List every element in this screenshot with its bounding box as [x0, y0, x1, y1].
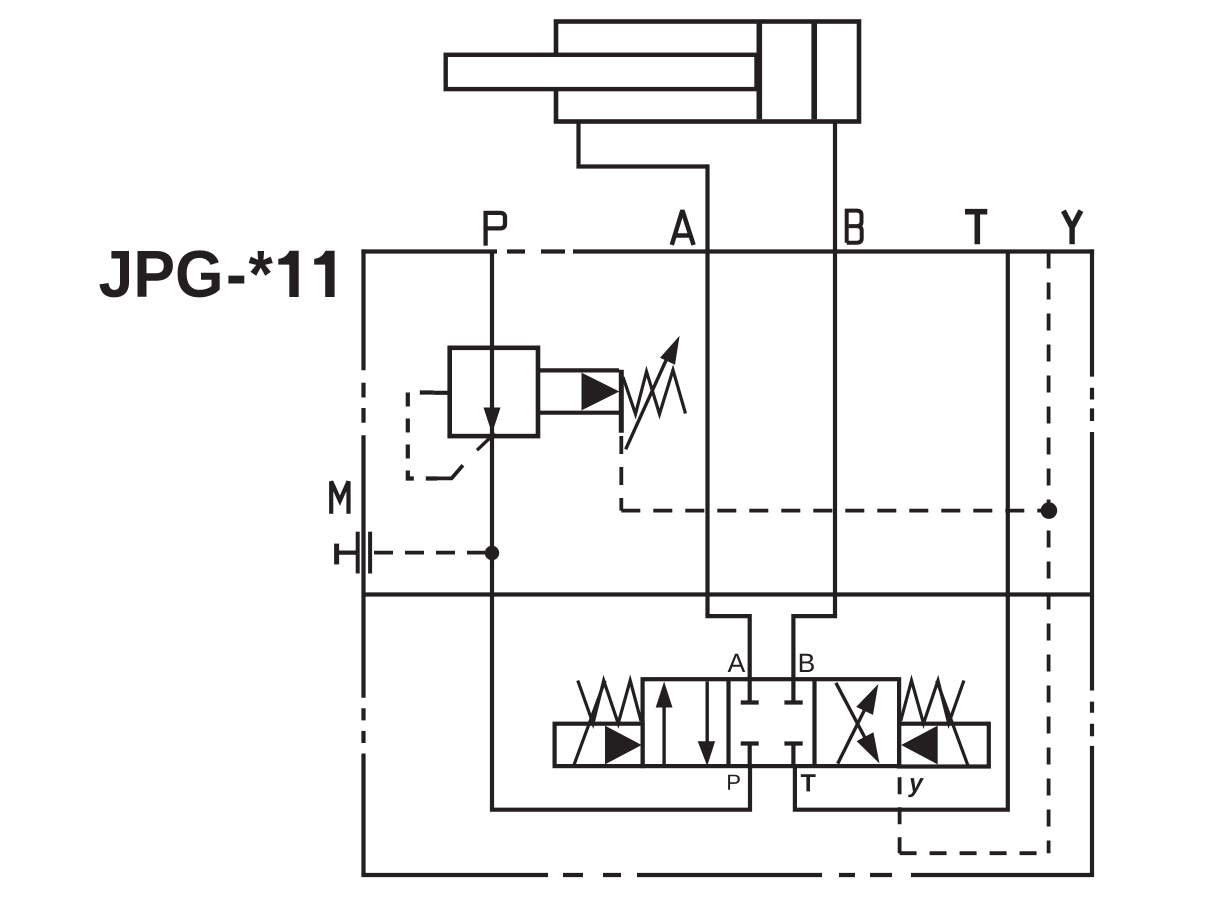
wire A jog to valve — [708, 614, 750, 679]
left solenoid box — [555, 724, 643, 766]
left solenoid slash — [574, 681, 605, 766]
cylinder piston rod — [446, 55, 757, 89]
left solenoid triangle — [605, 726, 642, 765]
port label Y — [1063, 211, 1081, 245]
junction dot on P line — [485, 546, 499, 560]
manifold right border — [1090, 249, 1094, 875]
drain pilot dashed vertical — [619, 436, 623, 511]
right cell cross arrow ascending — [838, 697, 871, 764]
port label A — [672, 212, 694, 245]
left cell down arrow — [706, 682, 709, 743]
M port stub — [337, 550, 358, 554]
wire B line vertical — [833, 121, 837, 616]
label JPG-*11 P — [138, 251, 173, 297]
manifold left border — [361, 249, 365, 875]
center cell blocked port T — [784, 744, 802, 767]
wire cylinder A-port down and across — [579, 121, 708, 167]
valve port label A — [728, 654, 746, 672]
wire B jog to valve — [793, 614, 835, 679]
manifold bottom border — [361, 873, 1094, 877]
label JPG-*11 hyphen — [228, 276, 244, 284]
y drain dashed vertical — [898, 777, 902, 853]
DCV cell divider 2 — [812, 679, 816, 766]
center cell blocked port P — [741, 744, 759, 767]
adjust arrowhead — [660, 336, 680, 365]
cylinder body — [556, 22, 859, 122]
valve port label y — [908, 778, 924, 797]
M port end bar — [334, 544, 339, 565]
right solenoid slash — [937, 681, 968, 766]
pressure reducing valve body — [450, 348, 538, 436]
label JPG-*11 asterisk — [249, 251, 273, 276]
port label T — [965, 212, 987, 245]
cylinder piston plate 1 — [756, 24, 762, 120]
valve port label B — [800, 654, 814, 672]
label JPG-*11 G — [178, 250, 220, 297]
reducing valve adjust slash — [477, 433, 495, 450]
port label P — [486, 213, 505, 246]
M port wall bar right — [368, 532, 372, 574]
adjust arrow shaft — [626, 356, 668, 449]
pilot drain lever — [436, 465, 463, 478]
right solenoid box — [899, 724, 989, 767]
label JPG-*11 digit 1 — [278, 251, 298, 297]
port label B — [847, 211, 862, 243]
right spring — [901, 681, 964, 724]
T line — [795, 252, 1008, 810]
pilot stub — [434, 391, 450, 395]
left cell up arrow — [662, 706, 665, 767]
label JPG-*11 J — [99, 251, 129, 297]
left spring — [578, 681, 641, 724]
pilot dashed box — [408, 393, 437, 479]
M port wall bar left — [356, 532, 360, 574]
right solenoid triangle — [901, 726, 938, 765]
y drain dashed horizontal — [900, 851, 1049, 855]
junction dot on Y line — [1041, 502, 1058, 519]
solenoid right bar — [619, 370, 624, 433]
solenoid spring — [623, 370, 686, 414]
center cell blocked port B — [784, 679, 802, 702]
M gauge dashed line — [374, 551, 490, 555]
valve port label T — [801, 774, 816, 791]
DCV valve body — [643, 679, 900, 766]
reducing valve arrowhead — [484, 408, 501, 434]
valve port label P — [728, 775, 740, 790]
port label M — [331, 481, 348, 513]
wire A line vertical — [705, 164, 709, 616]
label JPG-*11 digit 1 second — [314, 251, 334, 297]
manifold top border — [361, 249, 1094, 253]
DCV cell divider 1 — [726, 679, 730, 766]
drain pilot dashed horizontal — [621, 509, 1048, 513]
P line — [492, 252, 750, 810]
solenoid (reducing valve) box lines — [538, 370, 619, 412]
manifold mid divider — [364, 592, 1093, 596]
cylinder piston plate 2 — [811, 24, 817, 120]
center cell blocked port A — [741, 679, 759, 702]
right cell cross arrow descending — [836, 683, 872, 751]
solenoid triangle — [582, 373, 620, 411]
Y pilot dashed vertical — [1047, 252, 1051, 854]
